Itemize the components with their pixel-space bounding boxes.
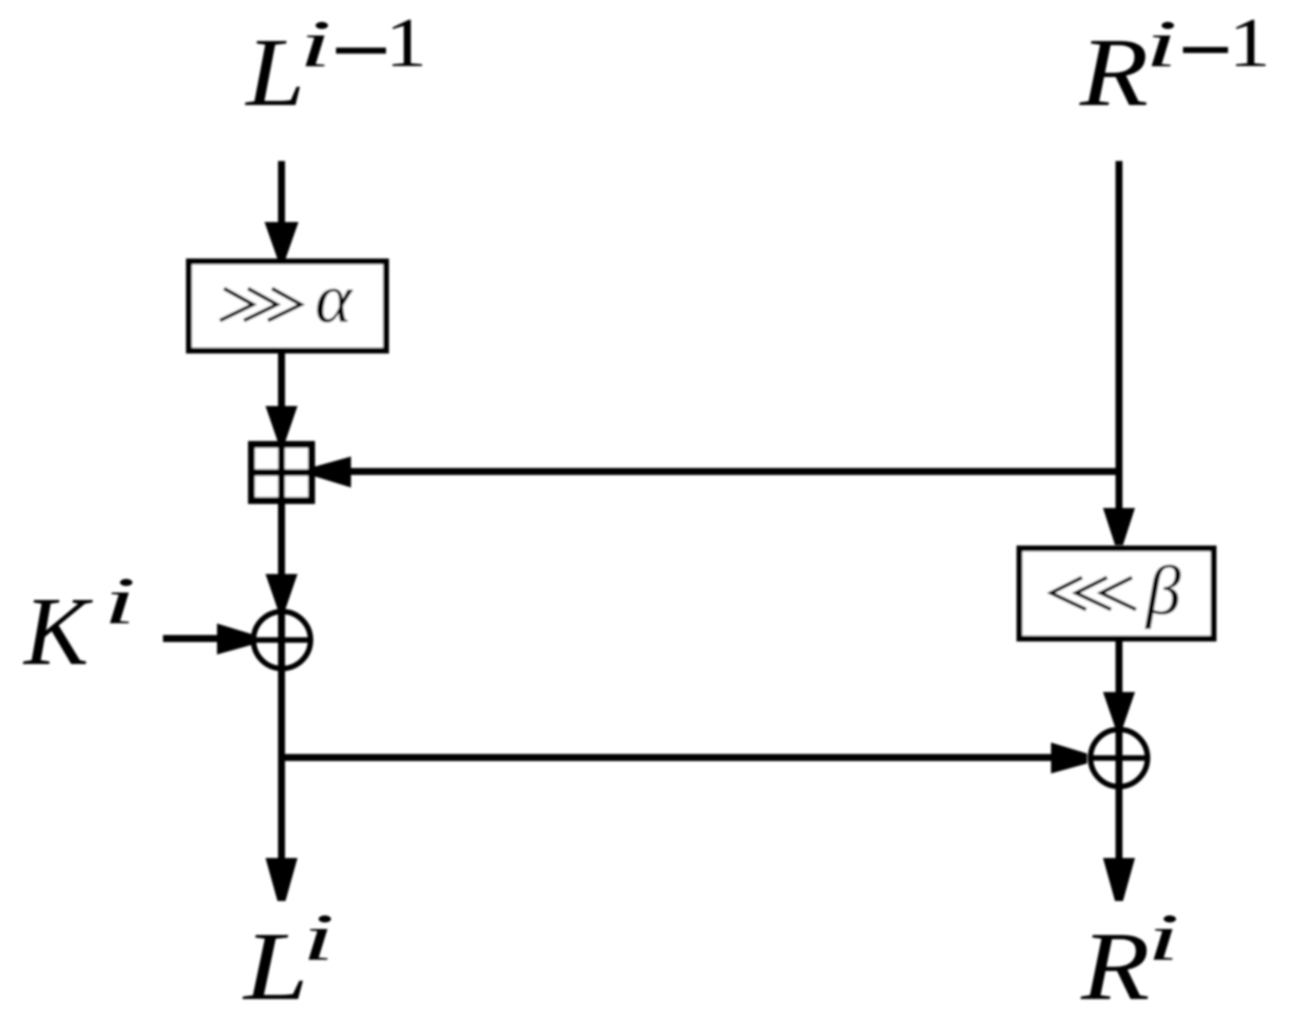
XOR gate 2 (right circled plus): [1088, 727, 1150, 789]
wire from K^i into XOR 1: [163, 624, 253, 655]
svg-text:1: 1: [385, 4, 427, 82]
node L^i label: [242, 900, 335, 1021]
svg-text:K: K: [22, 578, 93, 685]
triple chevron <<< glyph: [1051, 578, 1136, 610]
node R^i label: [1080, 900, 1180, 1020]
XOR gate 1 (left circled plus): [251, 609, 313, 671]
rotate-right box (&#8921; alpha): [189, 261, 386, 351]
wire from XOR 2 down to R^i: [1103, 789, 1135, 901]
wire branch from junction to XOR 2 (arrow pointing right): [282, 743, 1088, 774]
triple chevron >>> glyph: [220, 289, 301, 321]
svg-text:i: i: [1147, 900, 1180, 974]
svg-text:L: L: [244, 19, 305, 126]
node L^{i-1} label: [244, 4, 427, 127]
wire from modular adder to XOR 1: [266, 501, 298, 609]
svg-text:α: α: [315, 261, 353, 338]
svg-text:1: 1: [1229, 4, 1271, 82]
svg-text:R: R: [1079, 18, 1149, 126]
wire from R^{i-1} down to rotate box beta: [1103, 161, 1135, 545]
wire from R branch into modular adder (arrow pointing left): [315, 457, 1122, 488]
wire from rotate box to modular adder: [266, 353, 298, 441]
wire from rotate box beta to XOR 2: [1103, 638, 1135, 727]
svg-text:i: i: [302, 900, 335, 974]
svg-text:β: β: [1144, 553, 1181, 630]
wire from XOR 1 down to L^i with branch junction: [266, 671, 298, 901]
modular adder (boxed plus): [251, 444, 312, 501]
svg-text:R: R: [1080, 912, 1150, 1020]
svg-text:L: L: [242, 914, 309, 1021]
wire from L^{i-1} down into rotate box: [265, 161, 299, 259]
svg-text:i: i: [103, 563, 136, 637]
node R^{i-1} label: [1079, 4, 1271, 127]
svg-text:i: i: [299, 6, 332, 80]
rotate-left box (&#8920; beta): [1020, 549, 1214, 639]
node K^i label: [22, 563, 136, 685]
svg-text:i: i: [1145, 6, 1178, 80]
